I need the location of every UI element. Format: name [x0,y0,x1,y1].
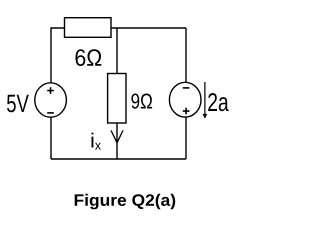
label 2a [208,93,229,111]
minus sign of V1 [47,112,54,114]
wire right vertical top [185,28,187,83]
label x subscript of ix [95,143,101,150]
label 5V [7,95,29,113]
dependent source 2a circle [169,82,201,117]
label i of ix [92,133,94,148]
wire left vertical top with jog to resistor [51,28,65,83]
label 9ohm [131,94,152,109]
voltage source V1 5V circle [35,83,67,117]
wire 9 ohm to bottom node [116,123,118,159]
label 6ohm [76,49,102,66]
minus sign of 2a source [183,87,190,89]
caption Figure Q2(a) [75,194,176,210]
resistor R1 6 ohm box [65,18,112,38]
wire top horizontal [111,27,186,29]
wire right vertical bottom [185,117,187,159]
plus sign of V1 [47,87,54,94]
arrowhead of ix current direction [111,130,123,142]
wire left vertical bottom [50,117,52,159]
plus sign of 2a source [183,108,190,115]
wire middle branch down to 9 ohm [116,28,118,74]
arrow line beside 2a source [204,82,206,118]
arrowhead beside 2a source [203,114,208,119]
resistor R2 9 ohm box [108,74,126,124]
wire bottom horizontal [51,158,186,160]
